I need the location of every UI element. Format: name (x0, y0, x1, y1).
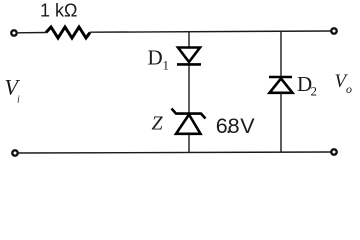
svg-text:Z: Z (152, 112, 164, 134)
wire top rail (90, 31, 331, 32)
svg-text:i: i (17, 95, 20, 106)
terminal output top-right (331, 28, 336, 33)
wire left lead to resistor (18, 32, 46, 34)
terminal input top-left (11, 30, 16, 35)
zener diode Z triangle (anode bottom, apex up) (176, 115, 201, 134)
label 6.8 V (216, 114, 256, 138)
svg-text:1 kΩ: 1 kΩ (40, 1, 77, 21)
wire middle branch lower (zener anode to bottom rail) (188, 134, 190, 153)
wire middle branch (D1 cathode to zener cathode) (188, 66, 190, 114)
diode D1 (anode top, cathode bar below) (177, 48, 201, 65)
svg-text:2: 2 (311, 84, 318, 99)
svg-text:D: D (148, 46, 163, 70)
wire bottom rail (18, 152, 330, 153)
zener diode Z cathode bar with bent ends (172, 109, 206, 119)
resistor 1 kΩ (46, 27, 90, 38)
terminal input bottom-left (12, 150, 17, 155)
terminal output bottom-right (331, 149, 336, 154)
wire right branch lower (D2 anode to bottom rail) (280, 93, 282, 153)
svg-text:o: o (346, 82, 352, 96)
svg-text:V: V (240, 114, 255, 138)
svg-text:8: 8 (228, 114, 240, 138)
svg-text:1: 1 (163, 58, 170, 73)
wire right branch upper (top rail to D2) (280, 31, 282, 77)
wire middle branch upper (top rail to D1) (188, 32, 190, 48)
diode D2 (cathode bar top, apex up) (269, 77, 293, 93)
